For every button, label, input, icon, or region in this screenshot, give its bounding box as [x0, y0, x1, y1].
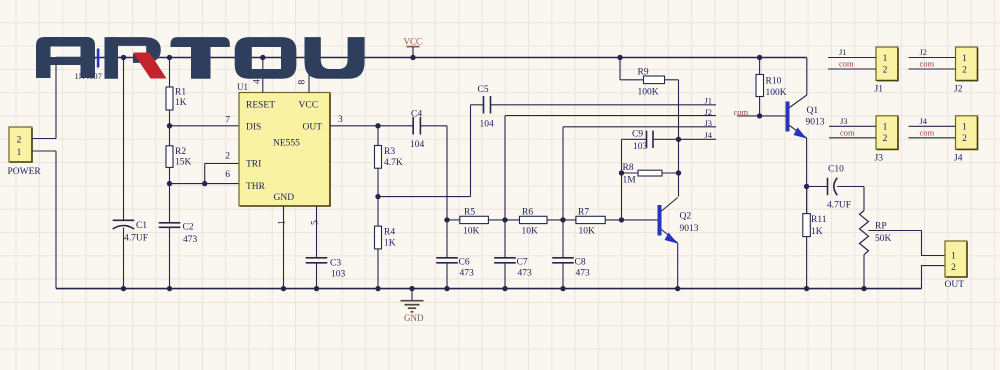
- svg-text:GND: GND: [274, 193, 295, 203]
- svg-text:7: 7: [225, 116, 230, 126]
- svg-text:473: 473: [460, 269, 475, 279]
- svg-text:TRI: TRI: [246, 160, 261, 170]
- svg-text:GND: GND: [404, 313, 424, 323]
- svg-text:J3: J3: [840, 116, 848, 126]
- svg-text:2: 2: [951, 263, 956, 273]
- svg-text:com: com: [839, 59, 854, 69]
- svg-text:C3: C3: [330, 259, 341, 269]
- svg-text:J2: J2: [954, 85, 963, 95]
- svg-text:R2: R2: [175, 147, 186, 157]
- svg-text:J4: J4: [920, 116, 928, 126]
- svg-text:103: 103: [331, 270, 346, 280]
- svg-text:R8: R8: [623, 163, 634, 173]
- svg-text:R5: R5: [464, 208, 475, 218]
- svg-text:R10: R10: [766, 77, 782, 87]
- svg-text:C6: C6: [459, 258, 470, 268]
- svg-text:J2: J2: [920, 47, 928, 57]
- svg-text:C5: C5: [478, 85, 489, 95]
- svg-text:15K: 15K: [175, 158, 192, 168]
- svg-text:J3: J3: [875, 153, 884, 163]
- svg-text:1: 1: [17, 148, 22, 158]
- svg-text:4.7UF: 4.7UF: [827, 201, 851, 211]
- svg-text:10K: 10K: [579, 227, 596, 237]
- svg-text:2: 2: [883, 65, 888, 75]
- svg-text:C2: C2: [183, 223, 194, 233]
- svg-text:R4: R4: [384, 228, 395, 238]
- svg-text:Q2: Q2: [680, 212, 692, 222]
- svg-text:2: 2: [17, 136, 22, 146]
- svg-text:R6: R6: [522, 208, 533, 218]
- svg-text:RESET: RESET: [246, 101, 275, 111]
- svg-text:5: 5: [311, 220, 321, 225]
- svg-text:4: 4: [253, 79, 263, 84]
- svg-text:2: 2: [962, 134, 967, 144]
- svg-text:1M: 1M: [623, 176, 637, 186]
- svg-text:NE555: NE555: [273, 139, 300, 149]
- svg-text:VCC: VCC: [299, 101, 319, 111]
- svg-text:2: 2: [962, 65, 967, 75]
- svg-text:104: 104: [480, 120, 495, 130]
- svg-text:2: 2: [225, 152, 230, 162]
- svg-text:J1: J1: [704, 96, 712, 106]
- svg-text:1: 1: [883, 123, 888, 133]
- svg-text:C4: C4: [411, 110, 422, 120]
- svg-text:J3: J3: [704, 118, 712, 128]
- svg-text:R7: R7: [578, 208, 589, 218]
- svg-text:4.7K: 4.7K: [384, 158, 403, 168]
- svg-text:com: com: [734, 107, 749, 117]
- svg-text:1: 1: [962, 54, 967, 64]
- svg-text:104: 104: [410, 140, 425, 150]
- svg-text:J4: J4: [704, 130, 712, 140]
- svg-text:1: 1: [278, 220, 288, 225]
- svg-text:com: com: [920, 127, 935, 137]
- svg-text:J4: J4: [954, 153, 963, 163]
- svg-text:8: 8: [298, 80, 308, 85]
- svg-text:473: 473: [518, 269, 533, 279]
- svg-text:3: 3: [338, 115, 343, 125]
- svg-text:U1: U1: [237, 82, 248, 92]
- svg-text:473: 473: [576, 269, 591, 279]
- svg-text:J2: J2: [704, 107, 712, 117]
- svg-text:OUT: OUT: [303, 123, 323, 133]
- svg-text:1K: 1K: [384, 239, 396, 249]
- svg-text:1K: 1K: [175, 98, 187, 108]
- svg-text:J1: J1: [839, 47, 847, 57]
- svg-text:OUT: OUT: [945, 280, 965, 290]
- svg-text:C1: C1: [136, 221, 147, 231]
- svg-text:100K: 100K: [638, 88, 659, 98]
- svg-text:J1: J1: [875, 85, 884, 95]
- svg-text:Q1: Q1: [807, 106, 819, 116]
- svg-text:103: 103: [633, 142, 648, 152]
- svg-text:THR: THR: [246, 182, 266, 192]
- svg-text:473: 473: [183, 235, 198, 245]
- svg-text:1: 1: [951, 252, 956, 262]
- svg-text:1: 1: [962, 123, 967, 133]
- svg-text:com: com: [840, 127, 855, 137]
- svg-text:VCC: VCC: [404, 37, 423, 47]
- svg-text:10K: 10K: [522, 227, 539, 237]
- svg-text:C10: C10: [828, 165, 844, 175]
- svg-text:com: com: [920, 59, 935, 69]
- svg-text:2: 2: [883, 134, 888, 144]
- svg-text:R11: R11: [811, 215, 827, 225]
- svg-text:9013: 9013: [806, 118, 825, 128]
- svg-text:10K: 10K: [463, 227, 480, 237]
- svg-text:C8: C8: [575, 258, 586, 268]
- svg-text:DIS: DIS: [246, 123, 261, 133]
- svg-text:R1: R1: [175, 88, 186, 98]
- svg-text:6: 6: [225, 170, 230, 180]
- svg-text:C7: C7: [517, 258, 528, 268]
- svg-text:50K: 50K: [875, 234, 892, 244]
- svg-text:4.7UF: 4.7UF: [124, 234, 148, 244]
- svg-text:1K: 1K: [811, 227, 823, 237]
- svg-text:POWER: POWER: [8, 167, 42, 177]
- svg-text:R9: R9: [638, 68, 649, 78]
- svg-text:C9: C9: [632, 130, 643, 140]
- svg-text:1: 1: [883, 54, 888, 64]
- svg-text:9013: 9013: [680, 224, 699, 234]
- svg-text:100K: 100K: [766, 88, 787, 98]
- svg-text:R3: R3: [384, 147, 395, 157]
